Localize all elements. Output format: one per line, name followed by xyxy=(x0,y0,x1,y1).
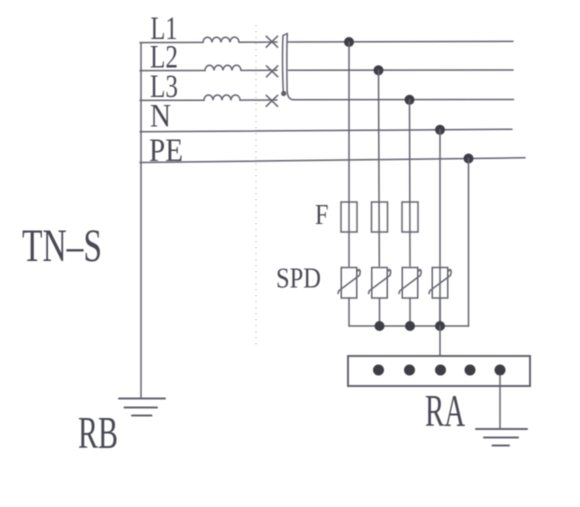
fuse F3 xyxy=(402,202,418,232)
wire L3 to disconnect xyxy=(240,99,277,101)
wire from common line to bonding bar xyxy=(439,326,441,356)
wire N xyxy=(140,129,512,132)
bonding bar terminal dot 1 xyxy=(373,365,384,376)
SPD2 varistor body xyxy=(372,268,388,299)
wire PE xyxy=(140,158,525,163)
service entrance double bar right stroke xyxy=(287,34,294,100)
SPD2 bottom wire xyxy=(379,298,381,326)
svg-text:PE: PE xyxy=(149,133,183,169)
junction dot on L2 xyxy=(374,65,384,75)
ground symbol RA xyxy=(476,429,527,446)
service entrance double bar left stroke xyxy=(282,36,285,92)
SPD1 varistor body xyxy=(341,268,357,299)
svg-text:F: F xyxy=(315,199,329,231)
left feeder bus vertical wire xyxy=(140,43,142,397)
wire L1 left segment xyxy=(140,41,203,43)
junction dot common line at SPD2 xyxy=(375,321,385,331)
wire L3 left segment xyxy=(140,99,204,101)
tap wire N down to SPD4 xyxy=(439,130,441,326)
disconnect mark X on L2 xyxy=(266,66,277,77)
SPD3 varistor diagonal xyxy=(399,270,421,294)
SPD1 bottom wire to common line xyxy=(348,298,350,326)
equipotential bonding bar xyxy=(348,356,530,386)
bonding bar terminal dot 3 xyxy=(435,365,446,376)
svg-text:N: N xyxy=(150,99,171,135)
ground symbol RB xyxy=(119,399,165,416)
svg-text:TN–S: TN–S xyxy=(22,220,102,272)
wire L2 left segment xyxy=(140,70,205,72)
tap wire L3 down to SPD3 xyxy=(409,100,412,266)
fuse F1 xyxy=(341,202,357,232)
service entrance double bar top tip xyxy=(283,34,287,36)
SPD3 bottom wire xyxy=(409,298,411,326)
wire L2 to disconnect xyxy=(241,69,277,71)
junction dot on PE xyxy=(464,154,474,164)
bonding bar terminal dot 5 xyxy=(495,365,506,376)
tap wire L2 down to SPD2 xyxy=(378,70,381,266)
wire L2 right segment xyxy=(289,69,514,71)
junction dot on L1 xyxy=(344,37,354,47)
junction dot common line at SPD3 xyxy=(405,321,415,331)
SPD common bonding wire xyxy=(349,325,469,327)
svg-text:RB: RB xyxy=(78,407,118,458)
tap wire L1 down to SPD1 xyxy=(348,42,350,266)
SPD3 varistor body xyxy=(402,268,418,299)
service entrance double bar blob xyxy=(281,91,286,96)
svg-text:RA: RA xyxy=(425,386,465,436)
disconnect mark X on L1 xyxy=(266,36,277,47)
wire bonding bar to earth RA xyxy=(499,375,501,429)
SPD2 varistor diagonal xyxy=(369,270,391,294)
inductor on L3 xyxy=(204,95,240,100)
wire L1 right segment xyxy=(288,40,513,43)
SPD4 varistor diagonal xyxy=(429,270,451,294)
SPD4 varistor body xyxy=(432,268,448,299)
SPD4 bottom wire xyxy=(439,298,441,326)
junction dot on N xyxy=(435,125,445,135)
tap wire PE down to common point xyxy=(468,159,470,327)
inductor on L1 xyxy=(203,37,239,42)
junction dot on L3 xyxy=(405,95,415,105)
wire L1 to disconnect xyxy=(239,41,277,43)
SPD1 varistor diagonal xyxy=(338,270,360,294)
fuse F2 xyxy=(372,202,388,232)
disconnect mark X on L3 xyxy=(266,95,277,106)
junction dot common line at SPD4 xyxy=(435,321,445,331)
bonding bar terminal dot 4 xyxy=(465,365,476,376)
wire L3 right segment xyxy=(294,99,514,101)
bonding bar terminal dot 2 xyxy=(404,365,415,376)
boundary dotted line xyxy=(255,25,257,349)
inductor on L2 xyxy=(205,65,241,70)
svg-text:SPD: SPD xyxy=(276,263,321,295)
